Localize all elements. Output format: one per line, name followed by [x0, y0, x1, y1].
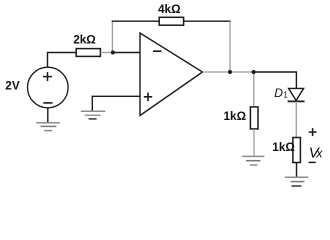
ground (under R3)	[242, 156, 264, 165]
ground (under R4)	[285, 177, 309, 186]
op-amp U1 (triangle)	[140, 33, 203, 116]
diode D1	[288, 88, 305, 101]
svg-text:2kΩ: 2kΩ	[73, 33, 96, 47]
ground (under non-inverting input)	[81, 111, 106, 119]
svg-text:1kΩ: 1kΩ	[224, 109, 247, 123]
wire: feedback left vertical (grey)	[111, 21, 113, 52]
svg-text:1: 1	[283, 91, 288, 100]
svg-text:4kΩ: 4kΩ	[158, 2, 181, 16]
node A (inverting input junction dot)	[111, 51, 115, 55]
label - (Vx polarity)	[309, 161, 316, 163]
label D1	[274, 86, 288, 100]
node C (output junction dot)	[252, 70, 256, 74]
wire: feedback right vertical (grey)	[229, 21, 231, 72]
resistor R4 1kOhm (vertical box under diode)	[293, 138, 301, 163]
wire: R1 right lead (grey) to node A	[100, 52, 112, 54]
ground (under source)	[36, 123, 60, 131]
wire: diode cathode to R4 (grey)	[295, 101, 297, 137]
wire: output node to diode branch	[254, 72, 297, 88]
svg-text:D: D	[274, 86, 283, 100]
label + (Vx polarity)	[309, 128, 317, 136]
wire: output node down to R3 (grey)	[253, 72, 255, 107]
resistor R3 1kOhm (vertical box under output)	[250, 107, 258, 129]
resistor R1 2kOhm (horizontal box)	[76, 49, 100, 57]
wire: source top to R1 left	[48, 53, 77, 68]
wire: top rail right segment	[184, 20, 231, 22]
wire: op-amp output lead (grey)	[203, 71, 254, 73]
op-amp minus input glyph	[153, 50, 162, 52]
node B (feedback junction dot on output)	[228, 70, 232, 74]
svg-text:x: x	[315, 147, 323, 161]
svg-text:2V: 2V	[5, 79, 20, 93]
wire: top rail left segment	[112, 20, 160, 22]
voltage source V1 (2V)	[28, 67, 69, 108]
op-amp plus input glyph	[144, 93, 152, 101]
wire: R4 bottom lead to ground	[296, 163, 298, 178]
svg-text:1kΩ: 1kΩ	[272, 140, 295, 154]
wire: op-amp non-inverting input from ground	[92, 96, 140, 111]
resistor R2 4kOhm (horizontal box, feedback)	[159, 17, 183, 25]
wire: source bottom to ground	[47, 108, 49, 123]
wire: R3 bottom lead to ground (grey)	[253, 129, 255, 156]
wire: node A to op-amp inverting input	[113, 52, 140, 54]
label Vx	[309, 145, 323, 162]
